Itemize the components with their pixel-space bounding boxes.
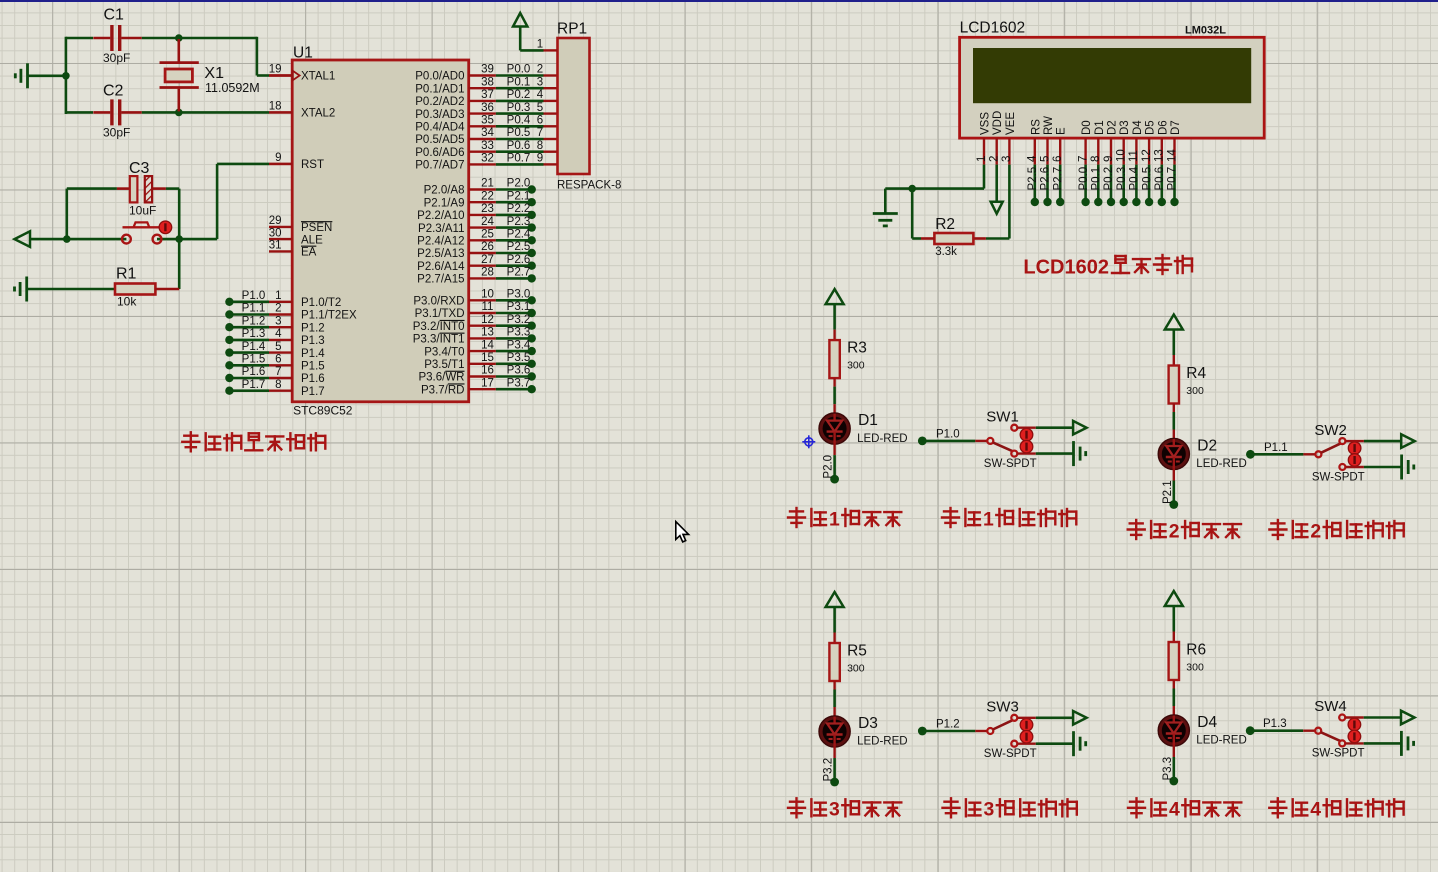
svg-text:P1.4: P1.4 (301, 348, 325, 360)
svg-text:37: 37 (481, 89, 494, 101)
svg-text:1: 1 (976, 156, 988, 162)
svg-text:16: 16 (481, 365, 494, 377)
svg-text:7: 7 (537, 127, 543, 139)
svg-text:P0.0: P0.0 (507, 64, 531, 76)
svg-text:LED-RED: LED-RED (1196, 735, 1246, 747)
svg-text:3: 3 (829, 799, 840, 821)
svg-text:P2.4: P2.4 (507, 229, 531, 241)
svg-text:SW-SPDT: SW-SPDT (1312, 748, 1365, 760)
svg-text:30pF: 30pF (103, 126, 130, 140)
svg-text:RST: RST (301, 159, 324, 171)
svg-text:P0.0/AD0: P0.0/AD0 (415, 71, 464, 83)
svg-text:23: 23 (481, 203, 494, 215)
svg-text:P3.0/RXD: P3.0/RXD (413, 296, 464, 308)
svg-text:P0.4/AD4: P0.4/AD4 (415, 122, 465, 134)
svg-text:SW4: SW4 (1314, 698, 1347, 715)
svg-text:13: 13 (481, 327, 494, 339)
svg-text:P0.3: P0.3 (1116, 167, 1128, 191)
svg-text:LED-RED: LED-RED (857, 433, 907, 445)
svg-text:P2.3/A11: P2.3/A11 (418, 223, 464, 235)
svg-text:P3.4: P3.4 (507, 339, 531, 351)
svg-text:4: 4 (537, 89, 544, 101)
svg-text:P1.0: P1.0 (936, 428, 960, 440)
svg-text:3: 3 (275, 315, 281, 327)
svg-text:LM032L: LM032L (1185, 25, 1226, 37)
svg-text:1: 1 (983, 508, 994, 530)
svg-text:P0.4: P0.4 (507, 115, 531, 127)
svg-text:9: 9 (275, 152, 281, 164)
svg-text:P2.3: P2.3 (507, 216, 531, 228)
svg-text:P2.7: P2.7 (1052, 167, 1064, 191)
svg-text:P3.0: P3.0 (507, 289, 531, 301)
svg-text:P3.7/RD: P3.7/RD (421, 384, 464, 396)
svg-text:P1.2: P1.2 (936, 719, 960, 731)
svg-text:SW1: SW1 (986, 408, 1019, 425)
svg-text:P2.7: P2.7 (507, 267, 531, 279)
svg-text:34: 34 (481, 127, 494, 139)
svg-text:11: 11 (482, 301, 494, 313)
svg-text:P0.6: P0.6 (1154, 167, 1166, 191)
svg-text:2: 2 (989, 156, 1001, 162)
svg-text:P0.2/AD2: P0.2/AD2 (415, 96, 464, 108)
svg-text:P2.6: P2.6 (507, 254, 531, 266)
svg-text:P0.3: P0.3 (507, 102, 531, 114)
svg-text:P1.4: P1.4 (242, 341, 266, 353)
svg-text:2: 2 (1169, 520, 1180, 542)
svg-text:SW-SPDT: SW-SPDT (984, 458, 1037, 470)
svg-text:8: 8 (537, 140, 543, 152)
svg-text:P3.7: P3.7 (507, 377, 531, 389)
svg-text:8: 8 (1090, 156, 1102, 162)
svg-text:11.0592M: 11.0592M (205, 81, 260, 95)
svg-text:P0.7/AD7: P0.7/AD7 (415, 160, 464, 172)
svg-text:22: 22 (481, 190, 494, 202)
svg-text:LED-RED: LED-RED (857, 736, 907, 748)
svg-text:P2.0/A8: P2.0/A8 (424, 185, 465, 197)
svg-text:P0.2: P0.2 (507, 89, 531, 101)
svg-text:P2.1: P2.1 (507, 190, 531, 202)
svg-text:P0.4: P0.4 (1129, 166, 1141, 190)
svg-text:RP1: RP1 (557, 21, 587, 38)
svg-text:4: 4 (275, 328, 282, 340)
svg-text:P2.0: P2.0 (507, 178, 531, 190)
svg-text:2: 2 (537, 64, 543, 76)
svg-text:39: 39 (481, 64, 494, 76)
svg-text:P1.3: P1.3 (242, 328, 266, 340)
svg-text:P3.2/INT0: P3.2/INT0 (413, 321, 465, 333)
svg-text:P0.5: P0.5 (1141, 167, 1153, 191)
svg-text:P2.5: P2.5 (507, 241, 531, 253)
svg-text:P3.1: P3.1 (507, 301, 531, 313)
svg-text:2: 2 (275, 303, 281, 315)
svg-text:P3.3/INT1: P3.3/INT1 (413, 334, 465, 346)
svg-text:C3: C3 (129, 160, 150, 177)
svg-text:D7: D7 (1170, 120, 1182, 135)
svg-text:1: 1 (537, 39, 543, 51)
svg-text:R5: R5 (847, 642, 867, 659)
svg-text:R4: R4 (1186, 365, 1206, 382)
svg-text:38: 38 (481, 76, 494, 88)
svg-text:P2.0: P2.0 (823, 455, 835, 479)
svg-text:21: 21 (481, 178, 494, 190)
svg-text:27: 27 (481, 254, 494, 266)
svg-text:P1.1/T2EX: P1.1/T2EX (301, 310, 357, 322)
svg-text:10: 10 (481, 289, 494, 301)
svg-text:P3.3: P3.3 (1162, 757, 1174, 781)
svg-text:4: 4 (1310, 799, 1321, 821)
svg-text:24: 24 (481, 216, 494, 228)
svg-text:P2.6/A14: P2.6/A14 (417, 261, 465, 273)
svg-text:P3.2: P3.2 (507, 314, 531, 326)
svg-text:U1: U1 (293, 45, 313, 62)
svg-text:4: 4 (1169, 799, 1180, 821)
svg-text:P3.4/T0: P3.4/T0 (424, 346, 464, 358)
svg-text:P3.5/T1: P3.5/T1 (424, 359, 464, 371)
svg-text:P1.2: P1.2 (242, 315, 266, 327)
svg-text:10: 10 (1116, 149, 1128, 162)
svg-text:P0.3/AD3: P0.3/AD3 (415, 109, 464, 121)
svg-text:P0.1: P0.1 (1091, 167, 1103, 191)
svg-text:RW: RW (1043, 116, 1055, 135)
svg-text:18: 18 (269, 101, 282, 113)
svg-text:13: 13 (1154, 149, 1166, 162)
svg-text:3.3k: 3.3k (935, 246, 957, 258)
svg-text:30pF: 30pF (103, 51, 130, 65)
svg-text:LCD1602: LCD1602 (1023, 257, 1109, 279)
svg-text:30: 30 (269, 227, 282, 239)
svg-text:P0.1/AD1: P0.1/AD1 (415, 83, 464, 95)
svg-text:5: 5 (537, 102, 543, 114)
svg-text:D4: D4 (1197, 714, 1217, 731)
svg-text:D5: D5 (1145, 120, 1157, 135)
svg-text:7: 7 (1077, 156, 1089, 162)
svg-text:10uF: 10uF (129, 204, 156, 218)
svg-text:300: 300 (1186, 385, 1204, 397)
svg-text:R6: R6 (1186, 641, 1206, 658)
svg-text:P1.1: P1.1 (1264, 442, 1288, 454)
svg-text:1: 1 (275, 290, 281, 302)
svg-text:P2.5/A13: P2.5/A13 (417, 248, 464, 260)
svg-text:D6: D6 (1157, 120, 1169, 135)
svg-text:25: 25 (481, 229, 494, 241)
svg-text:C1: C1 (104, 7, 125, 24)
svg-text:P2.7/A15: P2.7/A15 (417, 274, 464, 286)
svg-text:RESPACK-8: RESPACK-8 (557, 180, 621, 192)
svg-text:P1.5: P1.5 (301, 361, 325, 373)
svg-text:2: 2 (1310, 520, 1321, 542)
svg-text:P1.0/T2: P1.0/T2 (301, 297, 341, 309)
svg-text:4: 4 (1027, 155, 1039, 162)
svg-text:15: 15 (481, 352, 494, 364)
svg-text:P1.7: P1.7 (301, 386, 325, 398)
svg-text:17: 17 (481, 377, 494, 389)
svg-text:P3.2: P3.2 (823, 758, 835, 782)
svg-text:P2.5: P2.5 (1027, 167, 1039, 191)
svg-text:9: 9 (537, 153, 543, 165)
svg-text:29: 29 (269, 215, 282, 227)
svg-text:R3: R3 (847, 339, 867, 356)
svg-text:10k: 10k (117, 295, 137, 309)
svg-text:6: 6 (1052, 156, 1064, 162)
svg-text:300: 300 (847, 663, 865, 675)
svg-text:D3: D3 (1119, 120, 1131, 135)
svg-text:P0.5: P0.5 (507, 127, 531, 139)
svg-text:P1.0: P1.0 (242, 290, 266, 302)
svg-text:P2.6: P2.6 (1040, 167, 1052, 191)
svg-text:P1.6: P1.6 (242, 366, 266, 378)
svg-text:12: 12 (1141, 149, 1153, 162)
svg-text:P2.1: P2.1 (1162, 480, 1174, 504)
svg-text:D4: D4 (1132, 120, 1144, 135)
svg-text:SW3: SW3 (986, 699, 1019, 716)
svg-text:P0.7: P0.7 (507, 153, 531, 165)
svg-text:P2.4/A12: P2.4/A12 (417, 236, 464, 248)
svg-text:R2: R2 (935, 216, 955, 233)
svg-text:31: 31 (269, 240, 282, 252)
svg-text:5: 5 (275, 341, 281, 353)
svg-text:D1: D1 (1094, 120, 1106, 135)
svg-text:SW-SPDT: SW-SPDT (984, 748, 1037, 760)
svg-text:D2: D2 (1197, 438, 1217, 455)
svg-text:ALE: ALE (301, 234, 323, 246)
svg-text:STC89C52: STC89C52 (293, 404, 353, 418)
svg-text:14: 14 (481, 339, 494, 351)
svg-text:P1.1: P1.1 (242, 303, 266, 315)
svg-text:E: E (1056, 127, 1068, 135)
svg-text:P2.2: P2.2 (507, 203, 531, 215)
svg-text:LED-RED: LED-RED (1196, 458, 1246, 470)
svg-text:EA: EA (301, 247, 317, 259)
svg-text:12: 12 (481, 314, 494, 326)
svg-text:P0.1: P0.1 (507, 76, 531, 88)
svg-text:P3.6: P3.6 (507, 365, 531, 377)
svg-text:P0.0: P0.0 (1078, 167, 1090, 191)
svg-text:R1: R1 (116, 266, 137, 283)
svg-text:RS: RS (1030, 119, 1042, 135)
svg-text:6: 6 (275, 354, 281, 366)
svg-text:D0: D0 (1081, 120, 1093, 135)
svg-text:PSEN: PSEN (301, 222, 332, 234)
svg-text:D1: D1 (858, 412, 878, 429)
svg-text:5: 5 (1039, 156, 1051, 162)
svg-text:32: 32 (481, 153, 494, 165)
svg-text:C2: C2 (103, 83, 124, 100)
svg-text:P3.6/WR: P3.6/WR (418, 372, 464, 384)
svg-text:P1.2: P1.2 (301, 322, 325, 334)
svg-text:35: 35 (481, 115, 494, 127)
svg-text:SW-SPDT: SW-SPDT (1312, 471, 1365, 483)
svg-text:P0.7: P0.7 (1167, 167, 1179, 191)
svg-text:SW2: SW2 (1314, 422, 1347, 439)
svg-text:3: 3 (1001, 156, 1013, 162)
svg-text:P1.6: P1.6 (301, 373, 325, 385)
svg-text:28: 28 (481, 267, 494, 279)
svg-text:8: 8 (275, 379, 281, 391)
svg-text:9: 9 (1103, 156, 1115, 162)
svg-text:P0.2: P0.2 (1103, 167, 1115, 191)
svg-text:X1: X1 (204, 65, 224, 82)
svg-text:14: 14 (1166, 149, 1178, 162)
svg-text:33: 33 (481, 140, 494, 152)
svg-text:P2.1/A9: P2.1/A9 (424, 197, 465, 209)
svg-text:7: 7 (275, 366, 281, 378)
svg-text:P3.1/TXD: P3.1/TXD (415, 308, 465, 320)
svg-text:P3.5: P3.5 (507, 352, 531, 364)
svg-text:36: 36 (481, 102, 494, 114)
svg-text:P1.3: P1.3 (1263, 718, 1287, 730)
svg-text:VEE: VEE (1005, 112, 1017, 135)
svg-text:26: 26 (481, 241, 494, 253)
svg-text:VSS: VSS (980, 112, 992, 135)
svg-text:P2.2/A10: P2.2/A10 (417, 210, 464, 222)
svg-text:VDD: VDD (992, 111, 1004, 135)
svg-text:P1.3: P1.3 (301, 335, 325, 347)
svg-text:P0.6: P0.6 (507, 140, 531, 152)
svg-text:1: 1 (829, 508, 840, 530)
svg-text:3: 3 (537, 76, 543, 88)
svg-text:P0.6/AD6: P0.6/AD6 (415, 147, 464, 159)
svg-text:D3: D3 (858, 715, 878, 732)
svg-text:3: 3 (984, 799, 995, 821)
svg-text:P1.7: P1.7 (242, 379, 266, 391)
svg-text:300: 300 (1186, 662, 1204, 674)
svg-text:LCD1602: LCD1602 (960, 20, 1026, 37)
svg-text:P0.5/AD5: P0.5/AD5 (415, 134, 464, 146)
svg-text:P3.3: P3.3 (507, 327, 531, 339)
svg-text:P1.5: P1.5 (242, 354, 266, 366)
svg-text:XTAL1: XTAL1 (301, 71, 335, 83)
svg-text:XTAL2: XTAL2 (301, 108, 335, 120)
svg-text:6: 6 (537, 115, 543, 127)
svg-text:11: 11 (1128, 150, 1140, 162)
svg-text:300: 300 (847, 360, 865, 372)
svg-text:19: 19 (269, 64, 282, 76)
svg-text:D2: D2 (1107, 120, 1119, 135)
